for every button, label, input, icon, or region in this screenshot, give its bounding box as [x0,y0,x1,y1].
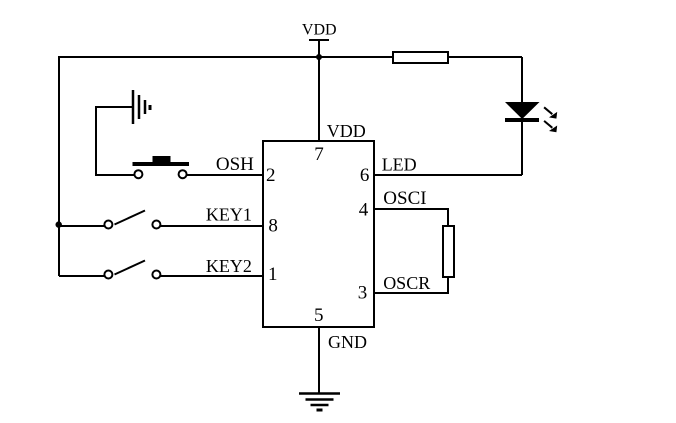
svg-text:VDD: VDD [302,22,337,39]
svg-text:OSCI: OSCI [383,188,426,209]
power symbol VDD [309,40,329,57]
wire pin 6 to LED [374,174,522,176]
ground (bottom) [299,394,340,411]
wire left vertical bus [58,56,60,276]
earth ground (top left, rotated) [133,90,150,124]
wire pin 4 to resistor [374,209,448,227]
LED light arrow 2 [544,121,557,132]
LED [505,102,540,120]
svg-text:KEY2: KEY2 [206,256,252,276]
svg-text:GND: GND [328,332,367,352]
LED light arrow 1 [544,107,557,118]
svg-text:OSCR: OSCR [383,273,430,293]
junction VDD rail / pin7 stub [316,54,322,60]
pushbutton switch (OSH) [133,156,190,178]
svg-text:4: 4 [359,200,369,221]
wire right vertical (rail to LED to pin 6) [521,57,523,175]
junction left bus / KEY1 [56,221,62,227]
svg-text:OSH: OSH [216,154,254,175]
svg-text:7: 7 [314,144,324,165]
wire OSH to pin 2 [187,174,263,176]
wire pin 7 stub [318,57,320,141]
wire KEY2 to pin 1 [161,275,264,277]
wire KEY1 to pin 8 [161,225,264,227]
svg-text:1: 1 [268,264,278,285]
resistor (oscillator, right) [443,226,454,277]
svg-text:LED: LED [382,154,417,174]
wire resistor to pin 3 [374,276,448,293]
wire left bus to KEY2 switch [59,275,105,277]
svg-text:5: 5 [314,305,324,326]
switch KEY2 [104,261,160,279]
svg-text:KEY1: KEY1 [206,205,252,225]
svg-text:VDD: VDD [327,121,366,141]
wire VDD rail (top horizontal) [58,56,522,58]
svg-text:8: 8 [268,216,278,237]
resistor (LED series, top) [393,52,448,63]
svg-text:6: 6 [360,165,370,186]
svg-text:3: 3 [358,283,368,304]
wire left bus to KEY1 switch [59,225,105,227]
wire earth-ground branch [96,107,135,175]
wire pin 5 to ground [318,327,320,394]
IC (8-pin) body [263,141,374,327]
switch KEY1 [104,211,160,229]
svg-text:2: 2 [266,165,276,186]
